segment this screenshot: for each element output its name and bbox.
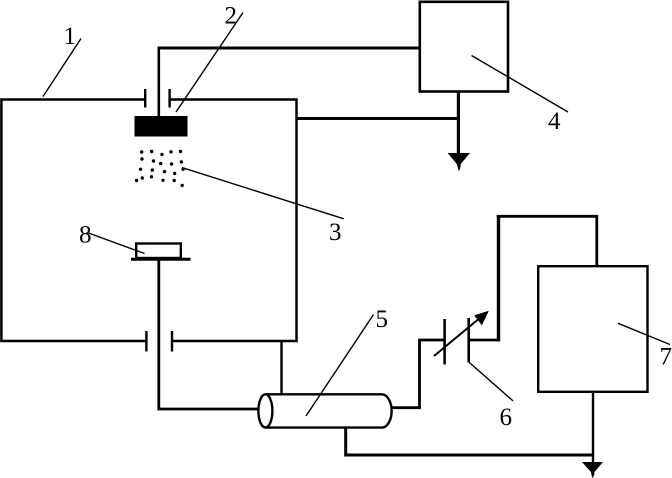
svg-text:3: 3 — [329, 219, 342, 246]
target electrode 2 (black block) — [135, 116, 188, 137]
pointer line for label 6 — [469, 363, 513, 401]
pointer line for label 2 — [176, 13, 243, 113]
wire: box 7 down to ground — [592, 392, 594, 462]
svg-text:8: 8 — [79, 222, 92, 249]
variable capacitor arrow head — [474, 311, 489, 326]
top feedthrough insulator ticks — [145, 89, 169, 108]
wire: right plate to riser — [469, 339, 500, 342]
wire: substrate stem down through bottom feedthrough and to cylinder — [159, 260, 260, 410]
svg-text:2: 2 — [225, 3, 238, 30]
wire: top horizontal to box 7 drop — [497, 215, 598, 218]
svg-text:6: 6 — [500, 404, 513, 431]
wire: riser up — [497, 215, 500, 341]
wire: cylinder bottom drain — [346, 427, 594, 455]
cylinder left end ellipse — [258, 394, 272, 427]
variable capacitor 6: right plate — [467, 318, 470, 363]
pointer line for label 5 — [306, 315, 374, 417]
variable capacitor arrow shaft — [434, 317, 481, 356]
substrate holder plate — [131, 258, 191, 261]
wire: drop down to box 7 — [595, 215, 598, 266]
wire: top horizontal to box 4 — [158, 47, 421, 50]
pointer line for label 8 — [89, 233, 145, 254]
svg-text:1: 1 — [64, 23, 77, 50]
ground (arrow under box 7) — [582, 462, 603, 478]
wire: electrode stem through top feedthrough — [158, 47, 161, 117]
substrate holder 8 (small rectangle) — [136, 244, 181, 259]
sputtered particle cloud 3 (dots) — [135, 150, 185, 187]
wire: chamber bottom to cylinder top — [280, 341, 282, 395]
box 7 (matching network / generator) — [538, 266, 647, 392]
svg-text:7: 7 — [660, 344, 672, 371]
wire: box 4 down to ground — [457, 92, 460, 155]
wire: cylinder right end up to variable capacitor — [392, 340, 445, 408]
svg-text:4: 4 — [548, 108, 561, 135]
variable capacitor 6: left plate — [443, 319, 446, 365]
pointer line for label 3 — [182, 168, 344, 219]
pointer line for label 7 — [618, 323, 670, 344]
bottom feedthrough insulator ticks — [146, 331, 172, 352]
cylinder 5 (matching box / rotary pump body) — [265, 394, 391, 427]
wire: chamber right wall to ground line — [297, 117, 460, 120]
box 4 (RF power supply) — [420, 2, 508, 92]
ground (arrow under box 4) — [448, 153, 470, 171]
svg-text:5: 5 — [376, 306, 389, 333]
pointer line for label 4 — [472, 56, 569, 113]
chamber 1 (vacuum chamber rectangle with feedthrough gaps) — [1, 100, 296, 342]
pointer line for label 1 — [43, 39, 81, 97]
